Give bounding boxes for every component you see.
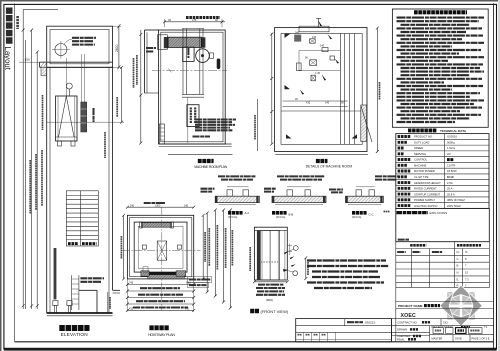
- svg-text:8×19: 8×19: [447, 175, 454, 179]
- svg-text:415: 415: [129, 308, 134, 311]
- svg-text:220V 50HZ: 220V 50HZ: [447, 204, 461, 208]
- svg-text:FINAL: FINAL: [397, 338, 405, 342]
- svg-text:140: 140: [325, 102, 330, 105]
- svg-text:DUTY LOAD: DUTY LOAD: [414, 141, 429, 145]
- svg-text:MACHINE: MACHINE: [414, 164, 427, 168]
- svg-text:(800): (800): [266, 298, 273, 302]
- svg-text:745: 745: [129, 282, 134, 285]
- svg-text:P.O: P.O: [185, 308, 189, 311]
- svg-text:1900: 1900: [155, 204, 161, 207]
- svg-text:(FRONT VIEW): (FRONT VIEW): [261, 309, 289, 314]
- svg-text:ELEVATION: ELEVATION: [61, 332, 88, 337]
- svg-text:XOEC: XOEC: [401, 313, 417, 319]
- svg-text:350: 350: [25, 57, 30, 61]
- svg-text:Layout: Layout: [3, 47, 12, 71]
- svg-text:MASTER: MASTER: [432, 337, 443, 341]
- svg-text:R.: R.: [457, 283, 460, 287]
- svg-text:MACHINE ROOM PLAN: MACHINE ROOM PLAN: [194, 165, 227, 169]
- svg-text:C-C: C-C: [369, 213, 374, 217]
- svg-text:CL.GP T.PE: CL.GP T.PE: [414, 175, 429, 179]
- svg-text:(W.9 CA): (W.9 CA): [276, 216, 286, 219]
- svg-text:E-: E-: [457, 264, 460, 268]
- svg-text:18.5KW: 18.5KW: [447, 169, 457, 173]
- svg-text:HOISTWAY PLAN: HOISTWAY PLAN: [148, 333, 175, 337]
- svg-text:SERVING: SERVING: [414, 152, 426, 156]
- svg-text:XO2091: XO2091: [447, 135, 457, 139]
- svg-text:25 A: 25 A: [447, 187, 453, 191]
- svg-text:1.45: 1.45: [315, 72, 320, 75]
- svg-text:A-A: A-A: [245, 211, 250, 215]
- svg-text:TECHNICAL DATA: TECHNICAL DATA: [440, 129, 467, 133]
- svg-text:PROJECT MODEL: PROJECT MODEL: [432, 325, 455, 329]
- svg-text:2.5m: 2.5m: [447, 181, 454, 185]
- svg-text:(W.9 CA): (W.9 CA): [228, 216, 238, 219]
- svg-text:13VTR: 13VTR: [447, 164, 455, 168]
- svg-text:NO.: NO.: [444, 320, 449, 324]
- svg-text:1.5m/s: 1.5m/s: [447, 146, 456, 150]
- svg-text:CONTROL: CONTROL: [414, 158, 428, 162]
- svg-text:PAGE 1 OF 1 E: PAGE 1 OF 1 E: [472, 337, 490, 341]
- svg-text:240: 240: [295, 31, 300, 34]
- svg-text:410: 410: [306, 102, 311, 105]
- svg-text:63021S: 63021S: [365, 321, 375, 325]
- svg-text:476: 476: [192, 18, 197, 22]
- svg-text:2600: 2600: [115, 44, 119, 52]
- svg-text:N.: N.: [457, 271, 460, 275]
- svg-text:STARTUP CURRENT: STARTUP CURRENT: [414, 192, 440, 196]
- svg-text:RATED CURRENT: RATED CURRENT: [414, 187, 437, 191]
- svg-text:CONTRACT NO.: CONTRACT NO.: [397, 320, 418, 324]
- svg-text:T.1: T.1: [484, 325, 488, 329]
- svg-text:20.8 A: 20.8 A: [447, 192, 455, 196]
- svg-text:245: 245: [130, 204, 135, 207]
- svg-text:B-B: B-B: [289, 213, 294, 217]
- svg-text:POWER SUPPLY: POWER SUPPLY: [414, 198, 436, 202]
- svg-text:C-: C-: [457, 257, 460, 261]
- svg-text:140: 140: [320, 45, 325, 48]
- svg-text:DATE: DATE: [455, 337, 462, 341]
- svg-text:7.3: 7.3: [465, 277, 469, 281]
- svg-text:LIGHTING SUPPLY: LIGHTING SUPPLY: [414, 204, 438, 208]
- svg-text:DRAWN: DRAWN: [397, 328, 407, 332]
- svg-text:410: 410: [312, 36, 317, 39]
- svg-text:HEADROOM HEIGHT: HEADROOM HEIGHT: [414, 181, 441, 185]
- svg-text:MOTOR POWER: MOTOR POWER: [414, 169, 435, 173]
- svg-text:245: 245: [184, 204, 189, 207]
- svg-text:P.12: P.12: [186, 282, 191, 285]
- svg-text:PROJECT NAME: PROJECT NAME: [398, 304, 423, 308]
- svg-text:SPEED: SPEED: [414, 146, 423, 150]
- svg-text:380V 3N 50HZ: 380V 3N 50HZ: [447, 198, 465, 202]
- svg-text:2/2: 2/2: [447, 152, 451, 156]
- svg-text:EXPL.NOTES: EXPL.NOTES: [430, 211, 448, 215]
- svg-text:E.: E.: [457, 277, 460, 281]
- svg-text:(W.9 CA): (W.9 CA): [352, 216, 362, 219]
- svg-text:PRODUCT NO.: PRODUCT NO.: [414, 135, 433, 139]
- svg-text:900Kg: 900Kg: [447, 141, 455, 145]
- svg-text:DETAILS OF MACHINE ROOM: DETAILS OF MACHINE ROOM: [306, 165, 353, 169]
